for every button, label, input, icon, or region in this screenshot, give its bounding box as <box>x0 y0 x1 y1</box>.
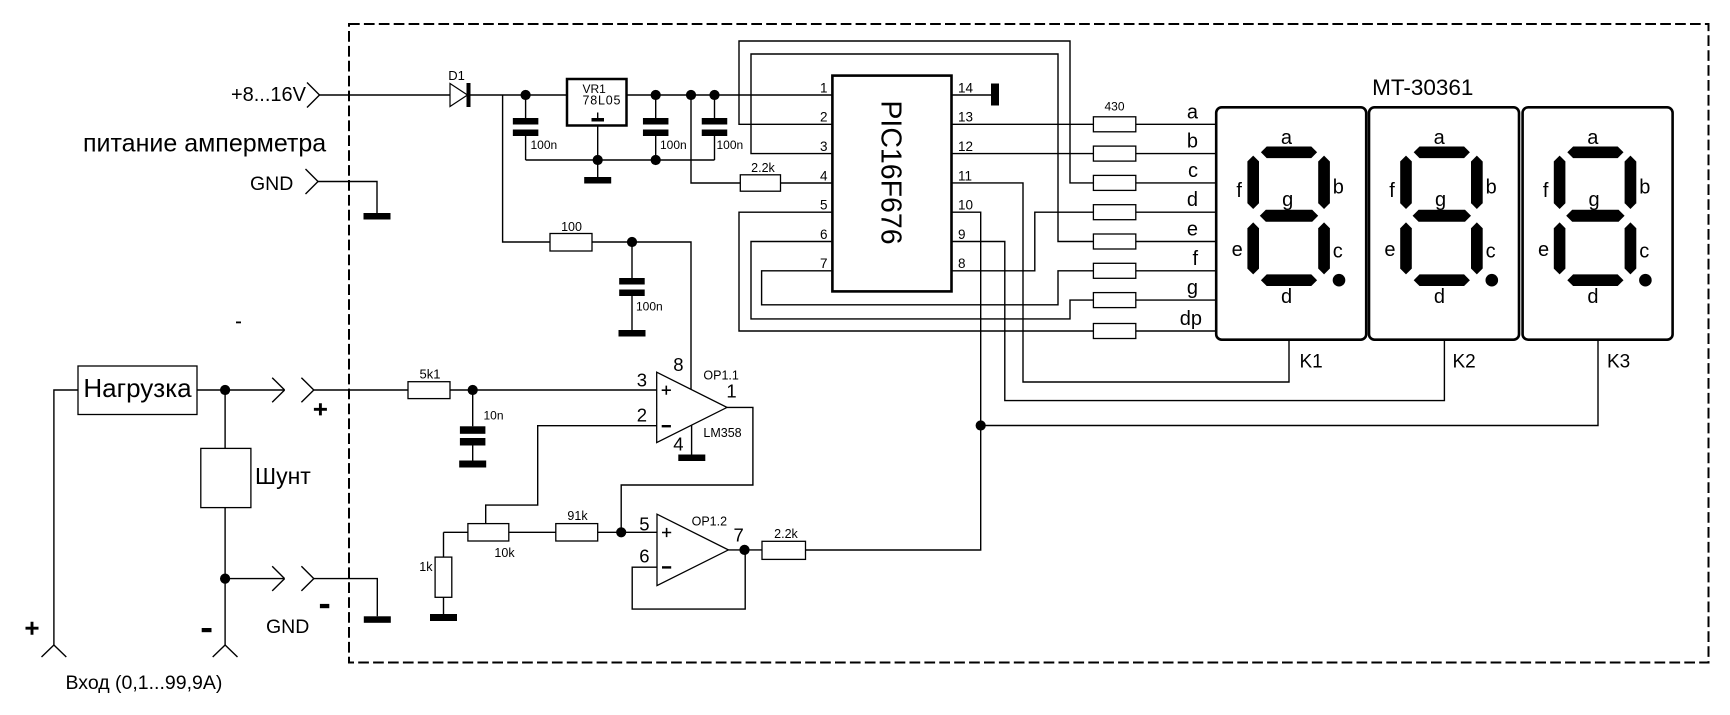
junction shunt bottom <box>220 574 230 584</box>
svg-text:6: 6 <box>820 227 828 242</box>
svg-text:1k: 1k <box>419 560 433 574</box>
wire pin 10 / ADC node <box>806 212 981 550</box>
wire shunt bottom <box>224 508 226 645</box>
svg-text:g: g <box>1435 189 1446 211</box>
svg-text:7: 7 <box>734 525 744 546</box>
wire resistor f to display <box>1136 270 1216 272</box>
svg-text:g: g <box>1187 277 1198 299</box>
svg-text:9: 9 <box>958 227 966 242</box>
wire resistor d to display <box>1136 211 1216 213</box>
stray minus mark <box>236 322 241 324</box>
resistor 2.2k (output) <box>762 541 806 559</box>
resistor 430 segment e <box>1093 234 1135 249</box>
svg-text:f: f <box>1192 248 1198 270</box>
svg-text:4: 4 <box>820 168 828 183</box>
input terminal - arrow <box>213 645 238 657</box>
capacitor 10n <box>472 390 474 426</box>
wire diode to VR1 <box>471 94 568 96</box>
display K3 MT-30361 <box>1523 107 1673 339</box>
svg-text:K1: K1 <box>1300 352 1323 373</box>
svg-text:8: 8 <box>958 256 966 271</box>
label + (input) <box>26 622 39 635</box>
wire OP1.1 inverting input <box>486 426 657 524</box>
svg-text:dp: dp <box>1180 308 1202 330</box>
svg-text:d: d <box>1587 286 1598 308</box>
svg-text:430: 430 <box>1104 100 1124 114</box>
wire VR1 out to PIC pin 1 <box>627 94 833 96</box>
svg-text:2.2k: 2.2k <box>774 527 798 541</box>
resistor 430 segment f <box>1093 263 1135 278</box>
svg-text:f: f <box>1389 180 1395 202</box>
resistor 430 segment a <box>1093 117 1135 132</box>
wire GND to ground <box>318 182 377 214</box>
ground (1k) <box>430 614 457 621</box>
svg-text:Нагрузка: Нагрузка <box>83 373 192 403</box>
connector arrow GND input <box>306 169 319 194</box>
svg-text:100: 100 <box>561 220 582 234</box>
resistor 430 segment d <box>1093 205 1135 220</box>
resistor 100 <box>550 234 592 252</box>
ground (10n) <box>459 461 486 468</box>
ground (opamp supply cap) <box>619 330 646 337</box>
svg-text:a: a <box>1187 101 1199 123</box>
wire pin 7 to segment f resistor <box>762 271 1094 305</box>
ground (VR1) <box>584 177 611 184</box>
junction on +V rail x=714.5 <box>709 90 719 100</box>
label + (sense) <box>314 403 327 415</box>
svg-text:14: 14 <box>958 80 974 95</box>
svg-text:5: 5 <box>820 198 828 213</box>
wire load to shunt node <box>197 389 285 391</box>
wire pin 5 to segment dp resistor <box>739 212 1093 331</box>
svg-text:100n: 100n <box>717 138 744 152</box>
regulator VR1 78L05 <box>567 79 627 126</box>
svg-text:a: a <box>1281 127 1293 149</box>
svg-text:7: 7 <box>820 256 828 271</box>
resistor 430 segment dp <box>1093 324 1135 339</box>
junction 10n <box>468 385 478 395</box>
wire load left to input + <box>54 390 78 645</box>
svg-text:D1: D1 <box>448 68 465 83</box>
svg-text:91k: 91k <box>567 509 588 523</box>
resistor 1k <box>443 532 445 557</box>
svg-text:c: c <box>1639 241 1649 263</box>
svg-text:3: 3 <box>820 139 828 154</box>
display K1 MT-30361 <box>1216 107 1366 339</box>
wire pin 12 to segment b resistor <box>952 153 1094 155</box>
wire pin 8 to segment d resistor <box>952 212 1094 271</box>
ground (top GND) <box>364 213 391 220</box>
wire 5k1 to opamp <box>450 389 657 391</box>
junction ADC node <box>976 420 986 430</box>
capacitor C2 100n <box>655 95 657 118</box>
wire +V to MCLR resistor <box>691 95 740 183</box>
load box Нагрузка <box>78 366 197 415</box>
dashed schematic frame <box>349 24 1709 663</box>
svg-text:b: b <box>1486 177 1497 199</box>
wire resistor g to display <box>1136 299 1216 301</box>
svg-text:b: b <box>1333 177 1344 199</box>
svg-text:10k: 10k <box>494 546 515 560</box>
label - (GND sense) <box>320 604 329 608</box>
wire OP1.2 feedback <box>632 550 745 609</box>
wire pin 11 to display K1 cathode <box>952 183 1290 382</box>
junction on +V rail x=655.7 <box>651 90 661 100</box>
svg-text:100n: 100n <box>531 138 558 152</box>
label - (shunt) <box>202 628 212 632</box>
wire +V rail to diode <box>320 94 451 96</box>
wire OP1.1 output feedback to OP1.2 <box>621 407 753 532</box>
svg-text:OP1.1: OP1.1 <box>703 369 738 383</box>
svg-text:PIC16F676: PIC16F676 <box>875 100 907 244</box>
capacitor C3 100n <box>714 95 716 118</box>
svg-text:c: c <box>1188 160 1198 182</box>
wire pin 13 to segment a resistor <box>952 123 1094 125</box>
svg-text:10n: 10n <box>484 409 504 423</box>
shunt resistor box <box>224 390 226 448</box>
svg-text:c: c <box>1333 241 1343 263</box>
svg-text:11: 11 <box>958 168 972 183</box>
svg-text:78L05: 78L05 <box>583 94 622 108</box>
resistor 430 segment c <box>1093 175 1135 190</box>
junction shunt top <box>220 385 230 395</box>
svg-text:g: g <box>1282 189 1293 211</box>
svg-text:GND: GND <box>266 616 309 638</box>
svg-text:5: 5 <box>639 514 649 535</box>
junction at filter cap <box>627 237 637 247</box>
wire pin 3 to segment e resistor <box>751 54 1093 242</box>
wire pin 14 to +5V terminal <box>952 94 992 96</box>
junction on +V rail x=691 <box>686 90 696 100</box>
junction OP1.2 output <box>739 545 749 555</box>
wire 1k to ground <box>443 597 445 614</box>
junction OP1.2 input <box>616 527 626 537</box>
svg-text:e: e <box>1538 239 1549 261</box>
svg-text:GND: GND <box>250 173 293 195</box>
svg-text:d: d <box>1187 189 1198 211</box>
svg-text:a: a <box>1434 127 1446 149</box>
resistor 430 segment b <box>1093 146 1135 161</box>
svg-text:e: e <box>1187 219 1198 241</box>
svg-text:+8...16V: +8...16V <box>231 84 307 106</box>
microcontroller U1 PIC16F676 <box>832 76 951 292</box>
svg-text:2: 2 <box>820 110 828 125</box>
connector arrow +V input <box>307 83 320 108</box>
svg-text:c: c <box>1486 241 1496 263</box>
wire sense to 5k1 <box>314 389 408 391</box>
wire resistor a to display <box>1136 123 1216 125</box>
junction on ground bus <box>593 155 603 165</box>
svg-text:K2: K2 <box>1453 352 1476 373</box>
wire resistor c to display <box>1136 182 1216 184</box>
input terminal + arrow <box>42 645 67 657</box>
wire resistor to PIC pin 4 <box>781 182 833 184</box>
wire +V to 100 ohm resistor <box>503 95 550 242</box>
svg-text:4: 4 <box>673 434 683 455</box>
svg-text:OP1.2: OP1.2 <box>692 515 727 529</box>
wire 100 ohm to opamp supply <box>592 242 691 389</box>
wire VR1 ground <box>597 126 599 178</box>
svg-text:8: 8 <box>673 354 683 375</box>
svg-text:13: 13 <box>958 110 973 125</box>
wire node to display K3 cathode <box>981 340 1598 426</box>
junction on +V rail x=525.6 <box>521 90 531 100</box>
display K2 MT-30361 <box>1369 107 1519 339</box>
capacitor C1 100n <box>525 95 527 118</box>
svg-text:100n: 100n <box>636 300 663 314</box>
svg-text:2.2k: 2.2k <box>751 161 775 175</box>
op-amp OP1.2 <box>657 514 728 585</box>
resistor 2.2k (MCLR pull-up) <box>740 175 780 191</box>
wire OP1.1 pin 4 ground <box>691 425 693 454</box>
svg-text:LM358: LM358 <box>703 426 741 440</box>
resistor 10k <box>444 531 468 533</box>
resistor 91k <box>509 531 556 533</box>
svg-text:e: e <box>1384 239 1395 261</box>
svg-text:5k1: 5k1 <box>420 367 441 382</box>
wire pin 9 to display K2 cathode <box>952 242 1445 401</box>
svg-text:1: 1 <box>820 80 828 95</box>
svg-text:MT-30361: MT-30361 <box>1372 75 1473 100</box>
svg-text:b: b <box>1639 177 1650 199</box>
+5V terminal bar <box>991 84 999 106</box>
svg-text:3: 3 <box>637 370 647 391</box>
wire pin 2 to segment c resistor <box>739 41 1093 183</box>
svg-text:1: 1 <box>726 381 736 402</box>
resistor 5k1 <box>408 382 450 399</box>
wire GND sense to ground <box>314 579 378 617</box>
svg-text:питание амперметра: питание амперметра <box>83 130 326 158</box>
svg-text:10: 10 <box>958 198 973 213</box>
wire capacitor ground bus <box>526 159 715 161</box>
wire shunt to GND sense <box>225 578 285 580</box>
diode D1 <box>450 84 468 107</box>
svg-text:100n: 100n <box>660 138 687 152</box>
resistor 430 segment g <box>1093 293 1135 308</box>
svg-text:Шунт: Шунт <box>255 463 311 489</box>
svg-text:a: a <box>1587 127 1599 149</box>
connector arrows + sense <box>272 378 284 403</box>
svg-text:f: f <box>1236 180 1242 202</box>
wire OP1.2 output to 2.2k <box>728 549 762 551</box>
svg-text:6: 6 <box>639 546 649 567</box>
svg-text:d: d <box>1434 286 1445 308</box>
svg-text:Вход (0,1...99,9А): Вход (0,1...99,9А) <box>66 672 223 694</box>
ground (OP1.1 pin 4) <box>678 455 705 462</box>
svg-text:e: e <box>1232 239 1243 261</box>
wire pin 6 to segment g resistor <box>751 242 1093 319</box>
svg-text:K3: K3 <box>1607 352 1630 373</box>
op-amp OP1.1 LM358 <box>657 372 727 442</box>
svg-text:12: 12 <box>958 139 973 154</box>
svg-text:2: 2 <box>637 405 647 426</box>
svg-text:b: b <box>1187 131 1198 153</box>
capacitor 100n (opamp supply) <box>631 242 633 278</box>
connector arrows GND sense <box>272 566 284 591</box>
svg-text:g: g <box>1589 189 1600 211</box>
wire resistor b to display <box>1136 153 1216 155</box>
wire 91k to OP1.2 <box>598 531 657 533</box>
wire resistor dp to display <box>1136 330 1216 332</box>
ground (GND sense) <box>364 616 391 623</box>
wire resistor e to display <box>1136 241 1216 243</box>
svg-text:d: d <box>1281 286 1292 308</box>
svg-text:f: f <box>1543 180 1549 202</box>
